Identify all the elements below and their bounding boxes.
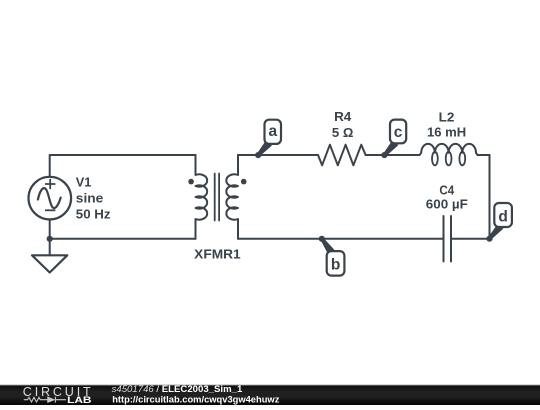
label C4 value: [426, 182, 468, 211]
transformer XFMR1 primary winding: [196, 155, 208, 239]
svg-text:L2: L2: [439, 109, 455, 124]
wire top rail: transformer to R4: [238, 154, 318, 156]
label R4 value: [332, 109, 354, 140]
inductor L2 humps: [420, 144, 490, 155]
footer bar: [0, 384, 540, 385]
wire right vertical: L2 to node d: [489, 155, 491, 239]
ground junction dot: [47, 236, 53, 242]
wire R4 to L2: [366, 154, 420, 156]
node a: [255, 120, 281, 159]
svg-text:a: a: [268, 123, 277, 140]
capacitor C4 plates: [444, 216, 452, 262]
svg-text:R4: R4: [334, 109, 352, 124]
transformer XFMR1 secondary winding: [226, 155, 238, 239]
resistor R4 zigzag: [318, 145, 366, 166]
V1 plus sign: [45, 179, 55, 189]
svg-text:s4501746 / ELEC2003_Sim_1: s4501746 / ELEC2003_Sim_1: [112, 384, 243, 395]
svg-text:5 Ω: 5 Ω: [332, 125, 354, 140]
svg-text:LAB: LAB: [67, 395, 92, 405]
svg-text:d: d: [498, 209, 507, 226]
voltage source V1 circle: [29, 177, 72, 220]
label L2 value: [427, 109, 466, 139]
CircuitLab logo glyph (resistor + diode): [24, 397, 66, 403]
ground symbol: [32, 255, 67, 272]
node c: [381, 120, 406, 159]
transformer XFMR1 core: [215, 174, 219, 221]
svg-text:XFMR1: XFMR1: [194, 246, 241, 261]
wire bottom rail: transformer secondary to C4: [238, 238, 444, 240]
transformer primary phase dot: [188, 179, 194, 185]
svg-text:600 µF: 600 µF: [426, 197, 468, 212]
svg-text:b: b: [331, 257, 340, 274]
svg-text:sine: sine: [76, 191, 104, 206]
wire V1 bottom lead to ground: [49, 220, 51, 256]
wire C4 to node d: [451, 238, 490, 240]
svg-text:V1: V1: [76, 174, 92, 189]
svg-text:c: c: [394, 124, 403, 141]
svg-text:http://circuitlab.com/cwqv3gw4: http://circuitlab.com/cwqv3gw4ehuwz: [112, 394, 280, 404]
node b: [319, 236, 345, 276]
node d: [486, 203, 512, 242]
inductor L2 lower loops: [432, 152, 465, 166]
V1 sine symbol: [38, 188, 61, 208]
transformer secondary phase dot: [241, 179, 247, 185]
label V1 value: [76, 174, 111, 221]
svg-text:16 mH: 16 mH: [427, 125, 466, 140]
wire bottom-left from transformer primary to V1/ground: [50, 238, 196, 240]
svg-text:C4: C4: [439, 182, 454, 197]
svg-text:50 Hz: 50 Hz: [76, 206, 111, 221]
wire top-left from V1 to transformer primary: [50, 155, 196, 177]
V1 minus sign: [45, 209, 55, 211]
